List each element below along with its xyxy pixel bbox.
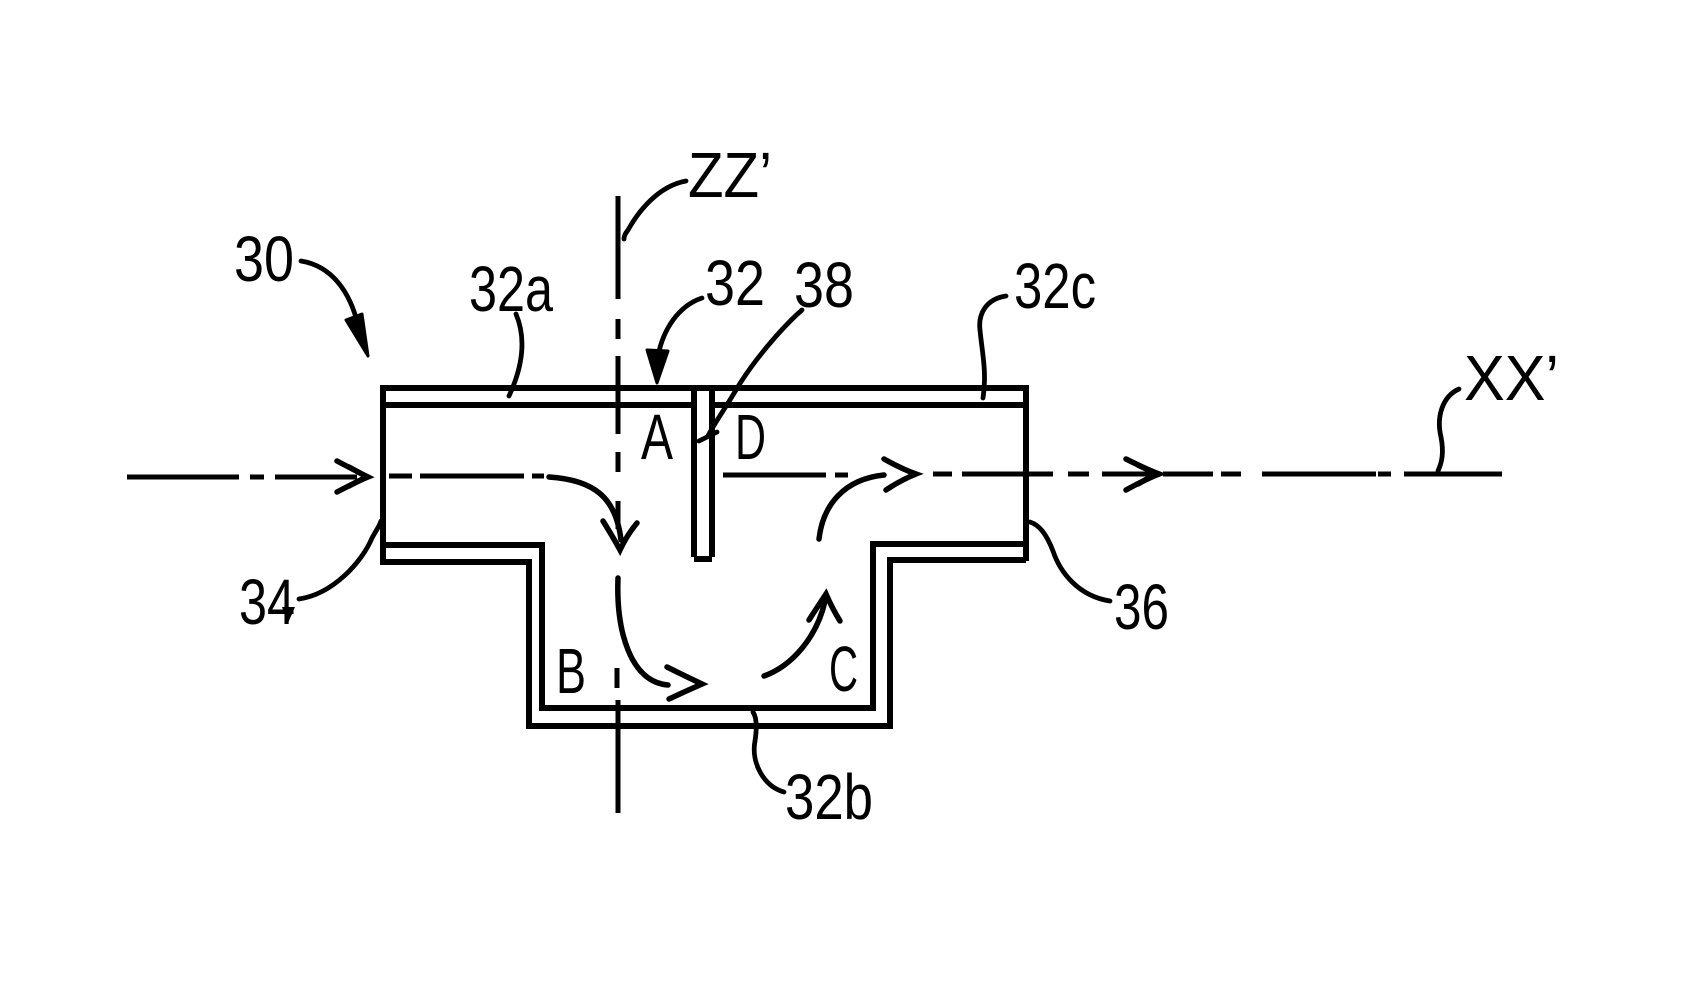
leader for XX' <box>1438 389 1459 471</box>
svg-text:32a: 32a <box>469 253 553 325</box>
svg-text:B: B <box>556 635 586 707</box>
leader for 36 <box>1030 522 1110 601</box>
svg-text:32b: 32b <box>785 761 873 833</box>
arrowhead: input arrow on axis (left) <box>337 461 368 492</box>
leader for 34 <box>299 521 381 599</box>
leader for 32 with solid arrowhead <box>658 298 702 356</box>
wire: vertical axis ZZ' dash-dot centerline <box>617 196 618 813</box>
svg-text:30: 30 <box>234 223 294 295</box>
leader for 32a <box>509 314 522 396</box>
leader for 38 <box>699 310 802 441</box>
svg-text:32c: 32c <box>1014 250 1096 322</box>
septum 38: vertical divider wall <box>694 388 712 559</box>
leader for 32b <box>753 712 784 792</box>
svg-text:36: 36 <box>1114 571 1169 643</box>
svg-text:C: C <box>829 633 858 705</box>
svg-text:D: D <box>735 401 766 473</box>
svg-text:ZZ’: ZZ’ <box>688 139 772 211</box>
leader for 32c <box>980 296 1006 398</box>
flow arrow: B to C along stub bottom (curved) <box>618 578 702 699</box>
wire: horizontal axis XX' dash-dot centerline <box>127 474 1502 477</box>
svg-text:34: 34 <box>239 566 295 638</box>
wall outline: T-junction outer contour <box>381 385 1028 726</box>
wall outline: T-junction inner contour <box>383 405 1026 708</box>
leader for ZZ' <box>624 181 686 239</box>
svg-text:A: A <box>641 401 673 473</box>
svg-text:32: 32 <box>705 247 765 319</box>
flow arrow: C up to D and out (curved) <box>819 459 916 539</box>
arrowhead: axis arrow right of structure <box>1126 459 1159 490</box>
leader for 30 with solid arrowhead <box>301 261 358 325</box>
flow arrow: A down to B (curved) <box>549 477 637 550</box>
svg-text:XX’: XX’ <box>1464 342 1559 414</box>
flow arrow: C upward (curved) <box>764 594 840 676</box>
small tick under 34 <box>282 607 295 623</box>
